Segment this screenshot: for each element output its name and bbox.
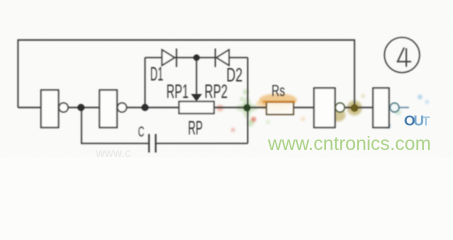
svg-text:www.c: www.c xyxy=(95,146,131,157)
svg-text:Rs: Rs xyxy=(272,83,286,100)
svg-text:RP: RP xyxy=(188,118,203,139)
svg-text:RP1: RP1 xyxy=(166,82,188,103)
svg-text:D1: D1 xyxy=(150,65,163,86)
svg-text:D2: D2 xyxy=(226,65,242,86)
svg-text:T: T xyxy=(422,114,430,129)
svg-text:www.cntronics.com: www.cntronics.com xyxy=(267,133,431,155)
svg-text:C: C xyxy=(138,124,144,140)
svg-text:RP2: RP2 xyxy=(205,82,228,103)
